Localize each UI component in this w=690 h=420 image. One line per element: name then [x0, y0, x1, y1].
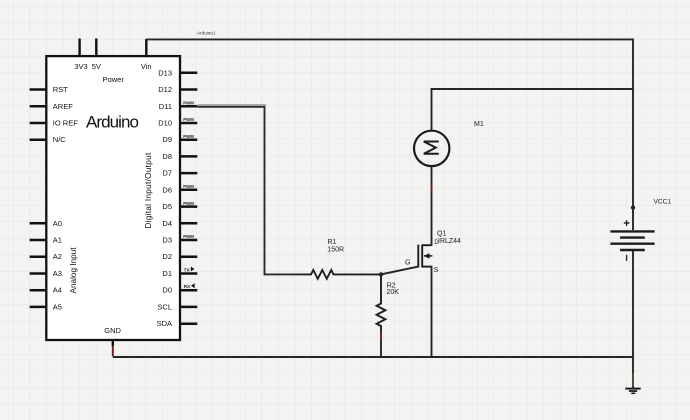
- wire source to ground rail: [431, 266, 433, 357]
- svg-text:20K: 20K: [387, 289, 400, 296]
- svg-text:AREF: AREF: [53, 102, 73, 111]
- wire battery drop: [632, 39, 634, 208]
- svg-text:D7: D7: [162, 169, 172, 178]
- svg-text:A5: A5: [53, 302, 62, 311]
- svg-text:A3: A3: [53, 269, 62, 278]
- right pin stubs D13-SDA: [180, 73, 197, 324]
- svg-text:VCC1: VCC1: [654, 198, 672, 205]
- wire gate diagonal: [381, 267, 418, 275]
- left pin stubs RST AREF IOREF NC A0-A5: [30, 90, 47, 307]
- svg-text:Vin: Vin: [141, 62, 152, 71]
- junction node gate: [379, 272, 383, 276]
- svg-text:D3: D3: [162, 236, 172, 245]
- pin stub 5V: [95, 39, 97, 57]
- svg-text:A1: A1: [53, 236, 62, 245]
- svg-text:150R: 150R: [327, 247, 344, 254]
- svg-text:D1: D1: [162, 269, 172, 278]
- wire motor top pin: [431, 88, 433, 131]
- svg-text:G: G: [405, 259, 410, 266]
- svg-text:N/C: N/C: [53, 135, 67, 144]
- Arduino GND pin stub: [112, 340, 114, 346]
- wire ground rail: [113, 356, 633, 358]
- svg-text:RST: RST: [53, 85, 68, 94]
- svg-text:RX: RX: [184, 284, 191, 290]
- battery VCC1: [610, 205, 654, 357]
- svg-text:D6: D6: [162, 185, 172, 194]
- motor M1: [414, 131, 449, 166]
- svg-text:Arduino1: Arduino1: [197, 31, 216, 36]
- wire battery to ground: [632, 357, 634, 388]
- wire motor bottom to drain: [431, 166, 433, 246]
- svg-text:D12: D12: [158, 85, 172, 94]
- wire Vin rail: [146, 38, 633, 40]
- svg-text:TX: TX: [184, 268, 191, 274]
- svg-text:D2: D2: [162, 252, 172, 261]
- red pin indicator R2 bottom: [380, 332, 382, 341]
- svg-text:D11: D11: [159, 102, 172, 111]
- resistor R1: [298, 270, 382, 279]
- green connection tint above ground: [632, 373, 634, 386]
- wire D11 gray halo: [198, 104, 267, 106]
- svg-text:A2: A2: [53, 252, 62, 261]
- svg-text:D13: D13: [158, 68, 172, 77]
- wire D11 to R1: [198, 107, 298, 275]
- svg-text:Digital Input/Output: Digital Input/Output: [144, 152, 153, 229]
- resistor R2: [377, 274, 386, 357]
- svg-text:D4: D4: [162, 219, 172, 228]
- PWM pin flags: [183, 101, 194, 240]
- junction node battery top: [631, 205, 635, 209]
- svg-text:IRLZ44: IRLZ44: [438, 238, 461, 245]
- red pin indicator GND: [112, 346, 114, 357]
- svg-text:M1: M1: [474, 121, 484, 128]
- svg-text:D0: D0: [162, 286, 172, 295]
- RX pin flag D0: [184, 283, 195, 290]
- svg-text:IO REF: IO REF: [53, 119, 78, 128]
- svg-text:PWM: PWM: [183, 117, 194, 122]
- svg-text:Arduino: Arduino: [86, 113, 138, 132]
- board text A0-A5: [53, 219, 62, 312]
- svg-text:A4: A4: [53, 286, 62, 295]
- svg-text:PWM: PWM: [183, 201, 194, 206]
- svg-text:5V: 5V: [92, 62, 101, 71]
- svg-text:D10: D10: [158, 119, 172, 128]
- Arduino board U1: [46, 56, 180, 340]
- board text D13-D0 SCL SDA: [157, 68, 172, 328]
- svg-text:SDA: SDA: [157, 319, 172, 328]
- svg-text:PWM: PWM: [183, 134, 194, 139]
- transistor Q1: [418, 245, 432, 268]
- svg-text:D5: D5: [162, 202, 172, 211]
- svg-text:R1: R1: [328, 239, 337, 246]
- svg-text:D9: D9: [162, 135, 172, 144]
- svg-text:PWM: PWM: [183, 101, 194, 106]
- svg-text:S: S: [434, 267, 439, 274]
- TX pin flag D1: [184, 267, 195, 274]
- svg-text:Analog Input: Analog Input: [69, 247, 78, 294]
- svg-text:3V3: 3V3: [74, 62, 87, 71]
- ground symbol: [625, 389, 640, 394]
- red pin indicator motor bottom: [431, 184, 433, 192]
- wire motor feed horizontal: [432, 88, 634, 90]
- svg-text:PWM: PWM: [183, 184, 194, 189]
- pin stub 3V3: [78, 39, 80, 57]
- svg-text:Power: Power: [103, 75, 125, 84]
- svg-text:A0: A0: [53, 219, 62, 228]
- svg-text:D8: D8: [162, 152, 172, 161]
- svg-text:SCL: SCL: [157, 302, 172, 311]
- pin stub Vin: [145, 39, 147, 56]
- svg-text:GND: GND: [104, 326, 121, 335]
- svg-text:PWM: PWM: [183, 234, 194, 239]
- svg-text:Q1: Q1: [437, 231, 446, 238]
